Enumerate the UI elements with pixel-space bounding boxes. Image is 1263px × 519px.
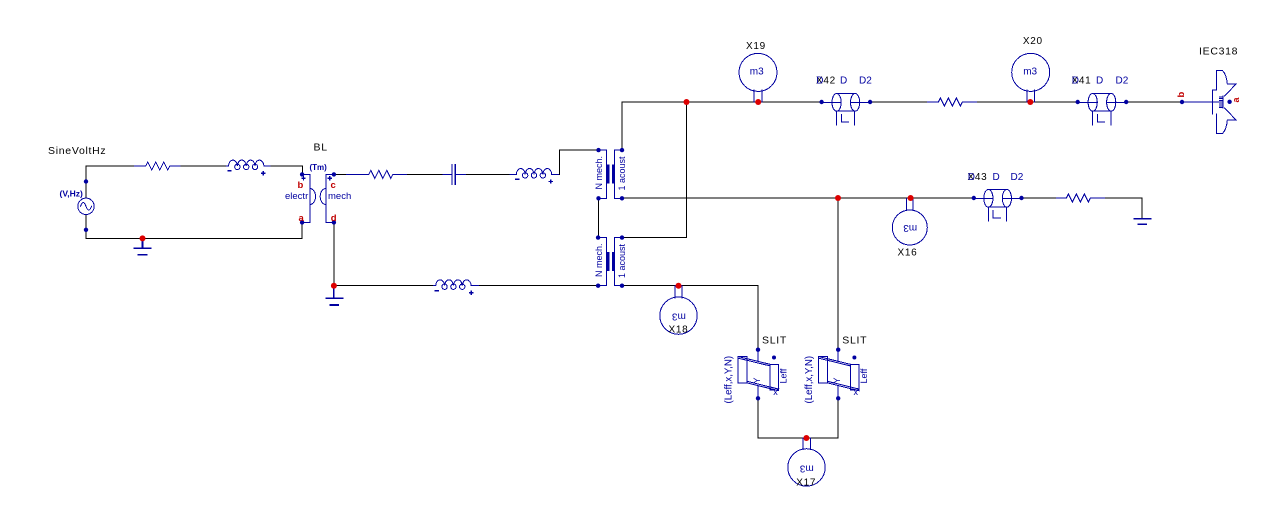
svg-text:X16: X16	[898, 248, 918, 259]
wire T1-T2 left link	[597, 198, 599, 237]
svg-text:D: D	[1072, 76, 1079, 87]
source V1 circle	[78, 198, 94, 214]
svg-text:mech: mech	[328, 191, 351, 202]
resistor R3	[928, 98, 977, 106]
svg-text:electr: electr	[285, 191, 308, 202]
label + pin c	[328, 176, 332, 180]
label L1 plus	[261, 171, 265, 175]
svg-text:D2: D2	[1011, 172, 1024, 183]
label + pin b	[301, 176, 305, 180]
svg-text:X17: X17	[796, 478, 816, 489]
transformer T1 core bars	[608, 166, 613, 182]
svg-text:1 acoust: 1 acoust	[617, 156, 627, 191]
svg-text:m3: m3	[1023, 66, 1037, 77]
svg-text:SLIT: SLIT	[762, 335, 787, 347]
resistor R4	[1056, 194, 1104, 202]
tube X43	[974, 189, 1022, 221]
inductor L3	[434, 280, 479, 286]
ground GND2	[326, 286, 342, 305]
svg-text:SLIT: SLIT	[842, 335, 867, 347]
svg-text:D: D	[816, 76, 823, 87]
svg-text:D: D	[1096, 76, 1103, 87]
svg-text:Y: Y	[832, 377, 842, 383]
transformer T2 core bars	[608, 253, 613, 269]
svg-text:X20: X20	[1023, 36, 1043, 47]
wire top acoustic row	[622, 101, 1182, 103]
svg-text:IEC318: IEC318	[1199, 46, 1238, 58]
wire top-left loop top	[86, 166, 302, 174]
meter X17	[788, 449, 825, 486]
meter X20	[1012, 53, 1050, 91]
tube X41	[1078, 94, 1127, 126]
svg-text:N mech.: N mech.	[594, 243, 604, 277]
svg-text:X19: X19	[746, 41, 766, 52]
wire bottom-left loop	[86, 222, 302, 238]
IEC318 coupler	[1182, 71, 1236, 134]
svg-text:Leff: Leff	[779, 368, 789, 383]
wire lower mech row	[334, 285, 598, 287]
slit S1	[738, 350, 779, 399]
svg-text:(Tm): (Tm)	[310, 163, 328, 172]
wire T1 right-top up	[621, 102, 623, 150]
svg-text:D2: D2	[1116, 76, 1129, 87]
svg-text:m3: m3	[799, 462, 813, 473]
transformer T2 brackets	[598, 238, 622, 286]
wire slit bottoms to X17	[758, 398, 838, 438]
meter X16	[892, 210, 927, 245]
svg-text:x: x	[773, 387, 778, 397]
svg-text:D: D	[993, 172, 1000, 183]
svg-text:x: x	[854, 387, 859, 397]
svg-text:(Leff,x,Y,N): (Leff,x,Y,N)	[804, 356, 815, 404]
ground GND3	[1134, 219, 1150, 225]
resistor R1	[135, 162, 181, 170]
label L2 plus	[548, 179, 552, 183]
svg-text:SineVoltHz: SineVoltHz	[48, 145, 106, 157]
label L1 minus	[227, 170, 231, 172]
pin dots blue	[84, 100, 1232, 401]
svg-text:b: b	[1176, 92, 1187, 98]
svg-text:BL: BL	[314, 142, 328, 154]
capacitor C1	[443, 165, 465, 185]
resistor R2	[347, 170, 407, 178]
label L3 minus	[435, 290, 439, 292]
svg-text:b: b	[298, 180, 304, 191]
svg-text:m3: m3	[903, 222, 917, 233]
svg-text:a: a	[299, 213, 305, 224]
svg-text:X18: X18	[669, 325, 689, 336]
svg-text:D: D	[840, 76, 847, 87]
junction dots red	[140, 99, 1034, 441]
tube X42	[822, 94, 871, 126]
svg-text:d: d	[331, 213, 337, 224]
svg-text:m3: m3	[672, 310, 686, 321]
inductor L1	[226, 160, 270, 166]
meter X19	[739, 53, 777, 91]
svg-text:Y: Y	[752, 377, 762, 383]
wire middle row down to right slit	[837, 198, 839, 350]
wire T2 right-bottom to slits	[622, 286, 758, 350]
inductor L2	[510, 168, 558, 174]
wire pin d down	[333, 222, 335, 285]
ground GND1	[134, 238, 151, 254]
svg-text:(Leff,x,Y,N): (Leff,x,Y,N)	[724, 356, 735, 404]
wire mech series row	[334, 150, 599, 174]
svg-text:1 acoust: 1 acoust	[617, 243, 627, 278]
svg-text:D: D	[968, 172, 975, 183]
svg-text:D2: D2	[859, 76, 872, 87]
svg-text:Leff: Leff	[859, 368, 869, 383]
svg-text:c: c	[331, 180, 336, 191]
BL transformer windings	[302, 174, 334, 222]
transformer T1 brackets	[599, 150, 623, 198]
wire junction down to T2	[622, 102, 687, 238]
wire source vertical top	[85, 166, 87, 198]
meter X18	[660, 297, 697, 334]
svg-text:N mech.: N mech.	[594, 156, 604, 190]
svg-text:(V,Hz): (V,Hz)	[60, 189, 83, 199]
label L3 plus	[469, 291, 473, 295]
svg-text:m3: m3	[750, 66, 764, 77]
wire middle acoustic row	[622, 198, 1142, 219]
slit S2	[818, 350, 859, 399]
wire source vertical bottom	[85, 215, 87, 239]
label L2 minus	[515, 178, 519, 180]
